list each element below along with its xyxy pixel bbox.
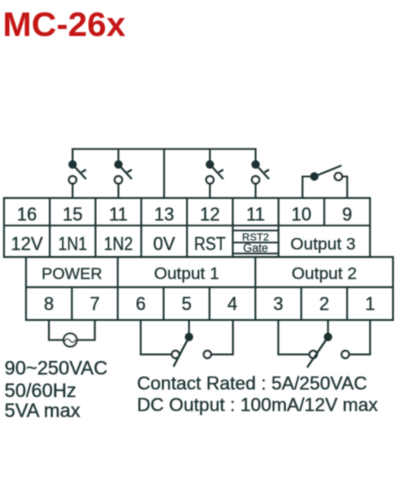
svg-text:DC Output : 100mA/12V max: DC Output : 100mA/12V max bbox=[137, 394, 378, 415]
svg-text:5VA max: 5VA max bbox=[5, 401, 81, 422]
svg-text:50/60Hz: 50/60Hz bbox=[5, 381, 77, 402]
svg-text:15: 15 bbox=[63, 204, 83, 224]
svg-text:1N1: 1N1 bbox=[58, 234, 87, 254]
svg-text:1N2: 1N2 bbox=[104, 234, 133, 254]
svg-text:12V: 12V bbox=[11, 234, 43, 254]
svg-text:Gate: Gate bbox=[243, 243, 268, 255]
svg-text:11: 11 bbox=[109, 204, 128, 224]
svg-text:1: 1 bbox=[365, 294, 375, 314]
svg-text:MC-26x: MC-26x bbox=[3, 6, 126, 44]
svg-text:Output 1: Output 1 bbox=[154, 264, 219, 283]
svg-text:4: 4 bbox=[227, 294, 237, 314]
svg-text:90~250VAC: 90~250VAC bbox=[5, 359, 108, 380]
svg-text:16: 16 bbox=[17, 204, 37, 224]
svg-text:6: 6 bbox=[136, 294, 146, 314]
svg-text:12: 12 bbox=[200, 204, 220, 224]
svg-text:Output 2: Output 2 bbox=[292, 264, 357, 283]
svg-text:7: 7 bbox=[90, 294, 100, 314]
svg-text:10: 10 bbox=[291, 204, 311, 224]
svg-text:13: 13 bbox=[154, 204, 174, 224]
svg-text:3: 3 bbox=[273, 294, 283, 314]
svg-text:5: 5 bbox=[182, 294, 192, 314]
svg-text:9: 9 bbox=[342, 204, 352, 224]
svg-text:Output 3: Output 3 bbox=[290, 235, 355, 254]
svg-text:Contact Rated : 5A/250VAC: Contact Rated : 5A/250VAC bbox=[137, 373, 367, 394]
svg-text:POWER: POWER bbox=[42, 266, 102, 283]
svg-text:2: 2 bbox=[319, 294, 329, 314]
svg-text:RST2: RST2 bbox=[242, 231, 269, 243]
svg-text:RST: RST bbox=[194, 234, 226, 254]
svg-text:8: 8 bbox=[44, 294, 54, 314]
svg-text:0V: 0V bbox=[153, 234, 175, 254]
svg-text:11: 11 bbox=[246, 204, 265, 224]
